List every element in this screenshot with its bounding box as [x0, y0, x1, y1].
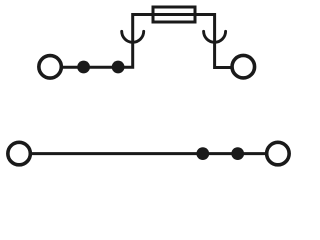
junction dot A (top row, left) — [77, 61, 90, 74]
terminal 1 (top-left ring terminal) — [39, 56, 62, 79]
fuse F1 body — [153, 7, 195, 22]
right disconnect hook contact — [204, 31, 226, 42]
terminal 4 (bottom-right ring terminal) — [267, 142, 290, 165]
junction dot D (bottom row, right) — [231, 147, 244, 160]
junction dot B (top row, right) — [112, 61, 125, 74]
left disconnect hook contact — [122, 31, 144, 42]
wire bottom feed-through run — [31, 152, 267, 155]
terminal 3 (bottom-left ring terminal) — [8, 142, 31, 165]
junction dot C (bottom row, left) — [196, 147, 209, 160]
wire top run: terminal 1 to left hook riser, over fuse, down to terminal 2 stub — [62, 15, 231, 68]
terminal 2 (top-right ring terminal) — [232, 55, 255, 78]
